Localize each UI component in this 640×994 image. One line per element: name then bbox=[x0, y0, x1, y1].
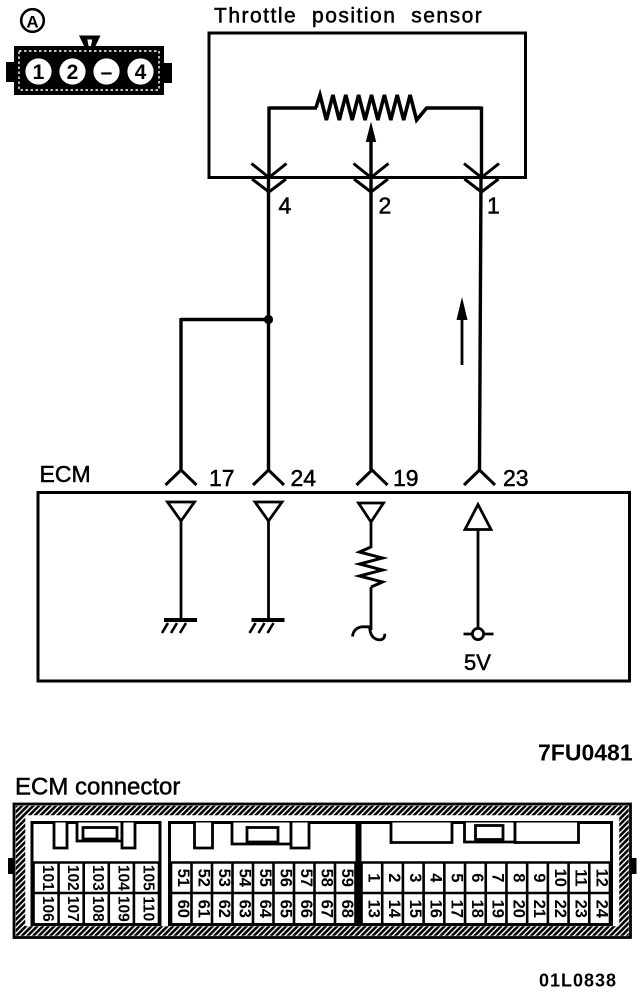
svg-text:65: 65 bbox=[276, 900, 294, 918]
svg-text:105: 105 bbox=[139, 865, 156, 891]
svg-text:5V: 5V bbox=[464, 650, 491, 675]
svg-text:102: 102 bbox=[64, 865, 81, 891]
svg-text:2: 2 bbox=[379, 193, 392, 219]
svg-text:60: 60 bbox=[174, 900, 192, 918]
svg-text:18: 18 bbox=[468, 900, 486, 918]
svg-text:59: 59 bbox=[338, 869, 356, 887]
svg-text:21: 21 bbox=[530, 900, 548, 918]
svg-text:103: 103 bbox=[89, 865, 106, 891]
svg-text:64: 64 bbox=[256, 900, 274, 919]
svg-text:24: 24 bbox=[291, 465, 317, 491]
svg-text:67: 67 bbox=[317, 900, 335, 918]
svg-text:8: 8 bbox=[509, 873, 527, 882]
svg-text:63: 63 bbox=[235, 900, 253, 918]
svg-text:7FU0481: 7FU0481 bbox=[538, 740, 633, 766]
svg-text:62: 62 bbox=[215, 900, 233, 918]
svg-text:–: – bbox=[101, 61, 113, 84]
svg-text:4: 4 bbox=[279, 193, 292, 219]
svg-text:52: 52 bbox=[194, 869, 212, 887]
svg-text:01L0838: 01L0838 bbox=[539, 971, 617, 991]
svg-text:19: 19 bbox=[393, 465, 419, 491]
svg-text:17: 17 bbox=[209, 465, 235, 491]
svg-text:2: 2 bbox=[67, 61, 79, 84]
svg-text:61: 61 bbox=[194, 900, 212, 918]
svg-text:109: 109 bbox=[114, 896, 131, 922]
svg-text:57: 57 bbox=[297, 869, 315, 887]
svg-text:3: 3 bbox=[406, 873, 424, 882]
svg-text:20: 20 bbox=[509, 900, 527, 918]
svg-text:17: 17 bbox=[447, 900, 465, 918]
svg-text:108: 108 bbox=[89, 896, 106, 922]
svg-text:66: 66 bbox=[297, 900, 315, 918]
svg-text:1: 1 bbox=[33, 61, 45, 84]
svg-text:58: 58 bbox=[317, 869, 335, 887]
svg-text:110: 110 bbox=[139, 896, 156, 921]
svg-text:19: 19 bbox=[489, 900, 507, 918]
svg-text:53: 53 bbox=[215, 869, 233, 887]
svg-text:2: 2 bbox=[385, 873, 403, 882]
svg-text:10: 10 bbox=[551, 869, 569, 887]
svg-text:4: 4 bbox=[427, 873, 445, 883]
svg-text:6: 6 bbox=[468, 873, 486, 882]
svg-text:16: 16 bbox=[427, 900, 445, 918]
svg-text:13: 13 bbox=[364, 900, 382, 918]
svg-text:Throttle position sensor: Throttle position sensor bbox=[214, 5, 483, 28]
svg-text:1: 1 bbox=[487, 193, 500, 219]
svg-text:12: 12 bbox=[592, 869, 610, 887]
svg-text:7: 7 bbox=[489, 873, 507, 882]
svg-text:56: 56 bbox=[276, 869, 294, 887]
svg-text:A: A bbox=[26, 13, 38, 32]
svg-text:23: 23 bbox=[572, 900, 590, 918]
svg-text:ECM: ECM bbox=[40, 461, 91, 487]
svg-text:5: 5 bbox=[447, 873, 465, 882]
svg-text:104: 104 bbox=[114, 865, 131, 891]
svg-text:23: 23 bbox=[503, 465, 529, 491]
svg-text:106: 106 bbox=[39, 896, 56, 922]
svg-text:54: 54 bbox=[235, 869, 253, 888]
svg-text:ECM connector: ECM connector bbox=[15, 774, 180, 801]
svg-text:24: 24 bbox=[592, 900, 610, 919]
svg-text:68: 68 bbox=[338, 900, 356, 918]
svg-text:51: 51 bbox=[174, 869, 192, 887]
svg-text:107: 107 bbox=[64, 896, 81, 922]
svg-text:101: 101 bbox=[39, 865, 56, 891]
svg-text:14: 14 bbox=[385, 900, 403, 919]
svg-text:9: 9 bbox=[530, 873, 548, 882]
svg-text:15: 15 bbox=[406, 900, 424, 918]
svg-text:22: 22 bbox=[551, 900, 569, 918]
svg-text:11: 11 bbox=[572, 869, 590, 886]
svg-text:1: 1 bbox=[364, 873, 382, 882]
svg-text:4: 4 bbox=[135, 61, 147, 84]
svg-text:55: 55 bbox=[256, 869, 274, 887]
